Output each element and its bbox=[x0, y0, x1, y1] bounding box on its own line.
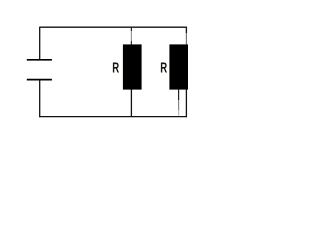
wire branch faded segment above R1 bbox=[130, 31, 132, 41]
capacitor C1 bottom plate bbox=[27, 79, 52, 81]
wire right faded segment above R2 bbox=[185, 33, 187, 45]
wire left upper (top-left corner to capacitor) bbox=[39, 27, 41, 60]
wire right upper stub at corner bbox=[185, 27, 187, 33]
wire top (node A to node B) bbox=[40, 26, 187, 28]
wire right lower (R2 body to bottom-right corner) bbox=[185, 89, 187, 117]
wire R1 bottom lead bbox=[130, 89, 132, 117]
wire branch dark stub at R1 top bbox=[130, 41, 132, 45]
wire branch stub at top node bbox=[130, 27, 132, 31]
resistor R1 body bbox=[123, 44, 142, 89]
resistor R2 body bbox=[169, 44, 188, 89]
svg-text:R: R bbox=[112, 60, 119, 76]
wire R2 bottom lead dark part bbox=[178, 89, 180, 100]
wire bottom bbox=[39, 116, 187, 118]
wire left lower (capacitor to bottom-left corner) bbox=[39, 80, 41, 118]
wire R2 bottom lead faded part bbox=[178, 100, 180, 110]
capacitor C1 top plate bbox=[27, 59, 52, 61]
svg-text:R: R bbox=[160, 60, 167, 76]
wire R2 bottom lead faint tail bbox=[178, 110, 180, 116]
